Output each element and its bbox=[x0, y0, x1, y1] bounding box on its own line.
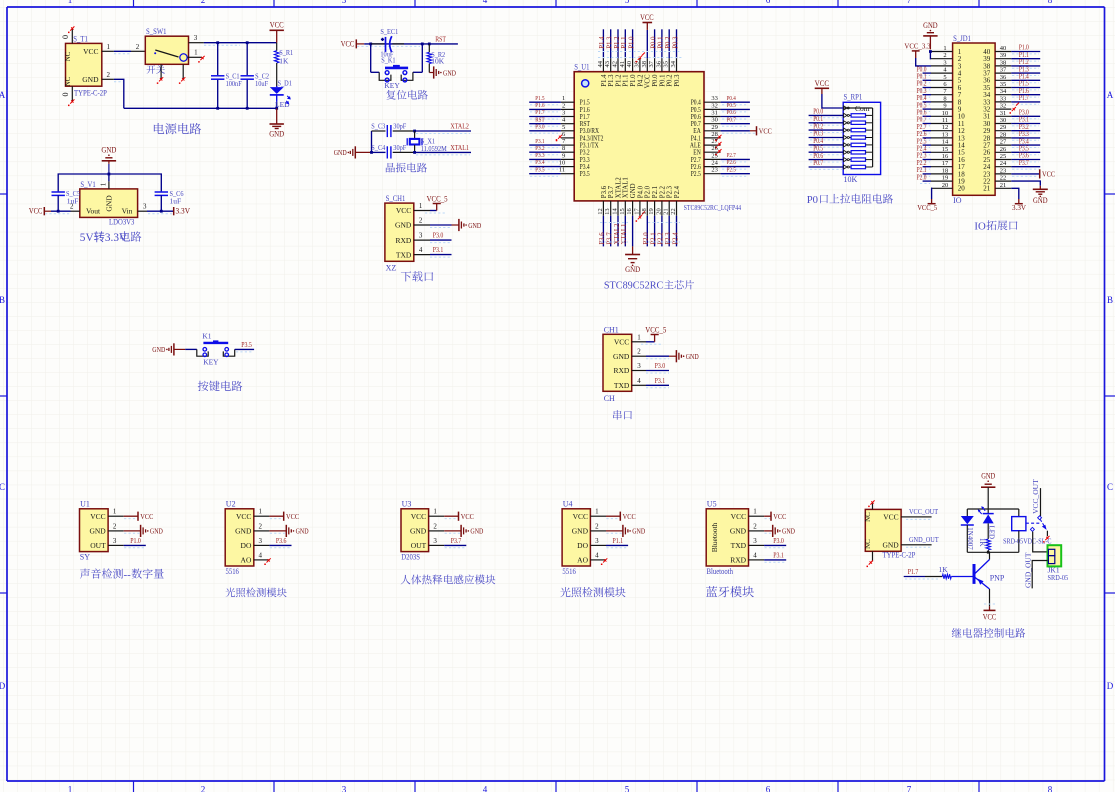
relay NC contact diamond bbox=[1030, 527, 1034, 531]
resistor R1 bbox=[276, 43, 278, 51]
wire T1.2 down to bottom rail bbox=[114, 79, 124, 108]
power port VCC at EA bbox=[756, 126, 758, 135]
SW1 bottom pin b bbox=[182, 64, 184, 78]
RP1 resistor row 4 bbox=[849, 129, 851, 131]
title U5 bbox=[706, 586, 754, 597]
wire U1 P1.0 bbox=[124, 544, 146, 546]
power port VCC_5 serial bbox=[654, 335, 656, 342]
ground GND chip bbox=[632, 246, 634, 254]
svg-text:P3.5: P3.5 bbox=[580, 170, 590, 178]
svg-text:VCC: VCC bbox=[883, 512, 898, 521]
wire P0.6 to RP1 bbox=[809, 159, 844, 161]
svg-text:2: 2 bbox=[201, 785, 206, 793]
U1 top pin 44 line bbox=[602, 58, 604, 71]
relay common line bbox=[1040, 488, 1042, 516]
JD1 right pin 23 line bbox=[995, 173, 1011, 175]
wire jd1 right P1.0 bbox=[1011, 51, 1040, 53]
wire U4 VCC bbox=[606, 515, 620, 517]
wire jd1 P2.5 bbox=[923, 144, 931, 146]
U1 top pin 36 line bbox=[661, 58, 663, 71]
svg-text:P3.7: P3.7 bbox=[451, 536, 462, 545]
svg-text:XZ: XZ bbox=[386, 264, 397, 273]
wire pin1 to VCC_5 bbox=[430, 210, 437, 212]
svg-text:VCC: VCC bbox=[573, 512, 588, 521]
svg-text:U3: U3 bbox=[402, 500, 412, 509]
JD1 left pin 3 line bbox=[931, 65, 953, 67]
wire jd1 right P3.4 bbox=[1011, 144, 1040, 146]
wire U5 P3.1 bbox=[764, 559, 786, 561]
svg-text:GND_OUT: GND_OUT bbox=[1023, 552, 1032, 588]
U1 bottom pin 15 line bbox=[624, 201, 626, 216]
RP1 com rail bbox=[843, 107, 872, 109]
svg-text:P1.5: P1.5 bbox=[535, 95, 544, 102]
svg-text:22: 22 bbox=[1000, 175, 1007, 182]
svg-text:S_T1: S_T1 bbox=[73, 35, 88, 44]
svg-text:39: 39 bbox=[1000, 52, 1007, 59]
ground GND power block bbox=[276, 108, 278, 124]
svg-text:XTAL2: XTAL2 bbox=[450, 121, 469, 130]
JD1 left pin 4 line bbox=[931, 72, 953, 74]
U1 right pin 28 line bbox=[704, 137, 721, 139]
svg-text:RST: RST bbox=[535, 116, 544, 123]
svg-text:B: B bbox=[0, 295, 5, 305]
svg-text:P1.1: P1.1 bbox=[613, 536, 624, 545]
wire U1 bottom pin net XTAL1 bbox=[624, 216, 626, 247]
wire jd1 P0.4 bbox=[923, 101, 931, 103]
svg-text:P1.0: P1.0 bbox=[130, 536, 141, 545]
svg-text:16: 16 bbox=[942, 153, 949, 160]
svg-text:DO: DO bbox=[577, 541, 588, 550]
svg-text:20: 20 bbox=[942, 182, 949, 189]
svg-text:P2.4: P2.4 bbox=[672, 232, 679, 245]
SW1 pin 3 line bbox=[189, 42, 204, 44]
svg-text:10: 10 bbox=[559, 160, 566, 167]
svg-text:TYPE-C-2P: TYPE-C-2P bbox=[883, 550, 916, 559]
svg-text:15: 15 bbox=[942, 146, 949, 153]
RP1 resistor row 7 bbox=[849, 151, 851, 153]
JD1 left pin 5 line bbox=[931, 79, 953, 81]
wire U4 GND bbox=[606, 530, 623, 532]
svg-text:10: 10 bbox=[942, 110, 949, 117]
svg-text:P3.1: P3.1 bbox=[773, 550, 784, 559]
svg-text:U1: U1 bbox=[80, 500, 90, 509]
junction bottom C1 bbox=[216, 107, 219, 110]
RP1 resistor row 8 bbox=[849, 159, 851, 161]
svg-text:LDO3V3: LDO3V3 bbox=[109, 218, 134, 227]
wire pin2 to GND bbox=[430, 224, 452, 226]
svg-text:GND: GND bbox=[923, 21, 938, 30]
wire jd1 pin23 VCC bbox=[1011, 173, 1039, 175]
svg-text:100nF: 100nF bbox=[226, 79, 242, 88]
wire jd1 P0.7 bbox=[923, 123, 931, 125]
svg-text:21: 21 bbox=[663, 208, 670, 215]
svg-text:P2.7: P2.7 bbox=[727, 152, 737, 159]
svg-text:25: 25 bbox=[1000, 153, 1007, 160]
svg-text:1: 1 bbox=[595, 508, 599, 516]
JD1 right pin 39 line bbox=[995, 58, 1011, 60]
LED relay arrows bbox=[982, 507, 986, 511]
diode 1N4007 bbox=[966, 509, 968, 516]
svg-text:VCC: VCC bbox=[773, 512, 786, 521]
JD1 left pin 15 line bbox=[931, 151, 953, 153]
U1 pin 1 VCC line bbox=[108, 515, 124, 517]
wire U1 top pin net P1.0 bbox=[632, 29, 634, 58]
wire VCC to V1.2 bbox=[51, 210, 71, 212]
junction relay collector bbox=[987, 551, 990, 554]
svg-text:20: 20 bbox=[655, 208, 662, 215]
wire vcc33 to pin3 bbox=[916, 58, 931, 66]
wire U1 GND bbox=[124, 530, 141, 532]
wire U1 bottom pin net XTAL2 bbox=[617, 216, 619, 247]
svg-text:P0: P0 bbox=[807, 194, 818, 206]
transistor Q1 PNP bbox=[973, 564, 976, 584]
wire V1.3 to 3.3V bbox=[147, 210, 174, 212]
wire jd1 right P3.1 bbox=[1011, 123, 1040, 125]
wire jd1 P2.1 bbox=[923, 173, 931, 175]
T1 top stub pin 0 bbox=[71, 28, 73, 44]
ground GND jd1 bottom bbox=[1039, 186, 1041, 190]
U1 right pin 27 line bbox=[704, 144, 721, 146]
svg-text:P3.0: P3.0 bbox=[773, 536, 784, 545]
RP1 resistor row 5 bbox=[849, 137, 851, 139]
svg-text:P1.0: P1.0 bbox=[628, 36, 635, 49]
svg-text:P2.5: P2.5 bbox=[691, 170, 701, 178]
wire XTAL2 bbox=[415, 130, 471, 132]
ground GND U2 bbox=[285, 525, 287, 537]
svg-text:P1.4: P1.4 bbox=[601, 74, 608, 87]
wire jd1 pin20 to VCC_5 bbox=[930, 188, 933, 199]
svg-text:33: 33 bbox=[1000, 95, 1007, 102]
wire serial pin3 P3.0 bbox=[646, 370, 669, 372]
svg-text:CH: CH bbox=[604, 394, 615, 403]
svg-text:38: 38 bbox=[641, 61, 648, 68]
no-connect X jd1 pin32 bbox=[1012, 107, 1016, 111]
module U1 body bbox=[80, 509, 109, 552]
RP1 pin arrow row 3 bbox=[844, 121, 847, 125]
wire P0.0 to RP1 bbox=[809, 114, 844, 116]
wire U1 bottom pin net P2.1 bbox=[654, 216, 656, 247]
wire jd1 right P1.6 bbox=[1011, 94, 1040, 96]
wire U1 top pin net P0.3 bbox=[676, 29, 678, 58]
svg-text:P1.3: P1.3 bbox=[607, 36, 614, 49]
svg-text:21: 21 bbox=[983, 185, 991, 193]
svg-text:P3.6: P3.6 bbox=[276, 536, 287, 545]
svg-text:GND: GND bbox=[89, 527, 106, 536]
svg-text:28: 28 bbox=[1000, 131, 1007, 138]
svg-text:GND: GND bbox=[150, 527, 163, 536]
svg-text:P0.5: P0.5 bbox=[727, 102, 736, 109]
RP1 pin arrow row 1 bbox=[844, 106, 847, 110]
svg-text:27: 27 bbox=[1000, 139, 1007, 146]
svg-text:CH1: CH1 bbox=[604, 325, 619, 334]
svg-text:KEY: KEY bbox=[203, 358, 219, 367]
no-connect X typec top bbox=[870, 500, 874, 504]
wire pin3 P3.0 bbox=[430, 239, 452, 241]
svg-text:VCC: VCC bbox=[614, 338, 629, 347]
svg-text:P2.6: P2.6 bbox=[727, 159, 737, 166]
JD1 left pin 12 line bbox=[931, 130, 953, 132]
U1 top pin 37 line bbox=[654, 58, 656, 71]
SW1 pin 2 line bbox=[131, 50, 145, 52]
svg-text:P3.6: P3.6 bbox=[599, 232, 606, 245]
svg-text:P0.2: P0.2 bbox=[667, 74, 674, 87]
wire U1 GND pin down bbox=[632, 216, 634, 247]
svg-text:2: 2 bbox=[419, 217, 423, 225]
svg-text:5516: 5516 bbox=[562, 567, 575, 576]
svg-text:GND: GND bbox=[882, 540, 899, 549]
T1 bottom stub pin 0 bbox=[71, 86, 73, 101]
svg-text:VCC: VCC bbox=[461, 512, 474, 521]
svg-text:VCC_5: VCC_5 bbox=[427, 195, 448, 204]
wire VCC down to Com bbox=[822, 94, 843, 108]
svg-text:P3.0: P3.0 bbox=[655, 361, 666, 370]
svg-text:22: 22 bbox=[670, 208, 677, 215]
svg-text:VCC_5: VCC_5 bbox=[917, 203, 937, 212]
svg-text:6: 6 bbox=[766, 0, 771, 5]
U5 pin 4 RXD line bbox=[749, 559, 765, 561]
wire U1 bottom pin net P3.7 bbox=[610, 216, 612, 247]
svg-text:KEY: KEY bbox=[384, 81, 400, 90]
svg-text:P0.7: P0.7 bbox=[813, 159, 823, 167]
wire U1 pin 25 net P2.7 bbox=[721, 158, 750, 160]
svg-text:23: 23 bbox=[1000, 167, 1007, 174]
svg-text:GND: GND bbox=[101, 145, 116, 154]
wire VCC_OUT bbox=[917, 516, 932, 518]
svg-text:1: 1 bbox=[194, 49, 198, 57]
power port VCC_5 jd1 bbox=[931, 199, 933, 204]
U1 bottom pin 16 line bbox=[632, 201, 634, 216]
no-connect X on SW1 pin1 bbox=[200, 56, 204, 60]
svg-text:3.3V: 3.3V bbox=[176, 207, 191, 216]
svg-text:GND: GND bbox=[334, 148, 347, 157]
svg-text:26: 26 bbox=[711, 145, 718, 152]
svg-text:P3.5: P3.5 bbox=[535, 166, 544, 173]
svg-text:XTAL1: XTAL1 bbox=[623, 177, 630, 198]
svg-text:S_RP1: S_RP1 bbox=[844, 93, 863, 102]
U2 pin 4 AO line bbox=[254, 559, 270, 561]
svg-text:VCC: VCC bbox=[286, 512, 299, 521]
U1 top pin 34 line bbox=[676, 58, 678, 71]
svg-text:27: 27 bbox=[711, 138, 718, 145]
svg-text:VCC_OUT: VCC_OUT bbox=[909, 507, 938, 516]
CH1 serial pin1 line bbox=[632, 341, 646, 343]
svg-text:VCC: VCC bbox=[815, 79, 830, 88]
RP1 resistor row 9 bbox=[849, 166, 851, 168]
T1 pin 2 line bbox=[102, 78, 114, 80]
svg-text:Bluetooth: Bluetooth bbox=[710, 522, 719, 552]
CH1 serial pin4 line bbox=[632, 384, 646, 386]
wire jd1 right P3.0 bbox=[1011, 115, 1040, 117]
svg-text:24: 24 bbox=[711, 160, 718, 167]
svg-text:XTAL2: XTAL2 bbox=[615, 177, 622, 199]
svg-text:1: 1 bbox=[259, 508, 263, 516]
svg-text:P2.0: P2.0 bbox=[917, 173, 927, 181]
wire U1 pin 24 net P2.6 bbox=[721, 166, 750, 168]
svg-text:S_JD1: S_JD1 bbox=[953, 34, 971, 43]
svg-text:P0.3: P0.3 bbox=[674, 74, 681, 87]
svg-text:S_C3: S_C3 bbox=[371, 122, 385, 131]
U1 right pin 33 line bbox=[704, 101, 721, 103]
svg-text:TXD: TXD bbox=[731, 541, 747, 550]
sheet border frame bbox=[7, 6, 1105, 8]
svg-text:2: 2 bbox=[201, 0, 206, 5]
wire U2 VCC bbox=[269, 515, 283, 517]
U3 pin 3 OUT line bbox=[429, 544, 445, 546]
JD1 right pin 36 line bbox=[995, 79, 1011, 81]
wire U1 bottom pin net P2.2 bbox=[661, 216, 663, 247]
svg-text:GND: GND bbox=[296, 527, 309, 536]
capacitor EC1 bbox=[385, 37, 387, 52]
svg-text:GND: GND bbox=[468, 221, 481, 230]
no-connect X U2 pin 4 bbox=[267, 558, 271, 562]
ground GND U4 bbox=[622, 525, 624, 537]
svg-text:P0.1: P0.1 bbox=[659, 75, 666, 87]
JD1 left pin 10 line bbox=[931, 115, 953, 117]
svg-text:P1.4: P1.4 bbox=[599, 36, 606, 49]
wire U5 GND bbox=[764, 530, 773, 532]
wire serial pin1 VCC_5 bbox=[646, 341, 655, 343]
svg-text:17: 17 bbox=[633, 208, 640, 215]
U4 pin 3 DO line bbox=[590, 544, 606, 546]
svg-text:35: 35 bbox=[1000, 81, 1007, 88]
title reset block bbox=[386, 90, 428, 100]
U1 left pin 9 line bbox=[561, 158, 574, 160]
svg-text:P3.1: P3.1 bbox=[433, 245, 444, 254]
U1 right pin 24 line bbox=[704, 166, 721, 168]
JD1 right pin 29 line bbox=[995, 130, 1011, 132]
svg-text:2: 2 bbox=[753, 522, 757, 530]
connector T1 body bbox=[66, 43, 102, 86]
JD1 left pin 6 line bbox=[931, 87, 953, 89]
wire P0.1 to RP1 bbox=[809, 122, 844, 124]
U1 bottom pin 20 line bbox=[661, 201, 663, 216]
svg-text:P3.1: P3.1 bbox=[655, 376, 666, 385]
title mcu bbox=[604, 280, 694, 292]
title power block bbox=[154, 123, 201, 134]
U1 left pin 4 line bbox=[561, 123, 574, 125]
svg-text:SY: SY bbox=[80, 553, 90, 562]
wire U1 bottom pin net P2.4 bbox=[676, 216, 678, 247]
svg-text:AO: AO bbox=[577, 556, 588, 565]
U1 left pin 3 line bbox=[561, 116, 574, 118]
svg-text:P3.2: P3.2 bbox=[535, 145, 544, 152]
U1 pin 2 GND line bbox=[108, 530, 124, 532]
svg-text:GND: GND bbox=[470, 527, 483, 536]
ground GND reset bbox=[429, 72, 433, 74]
svg-text:8: 8 bbox=[562, 145, 565, 152]
svg-text:P1.7: P1.7 bbox=[1019, 94, 1029, 102]
wire U3 GND bbox=[444, 530, 461, 532]
SW1 bottom pin a bbox=[160, 64, 162, 78]
wire jd1 P2.2 bbox=[923, 166, 931, 168]
svg-text:P2.3: P2.3 bbox=[665, 232, 672, 245]
svg-text:VCC_OUT: VCC_OUT bbox=[1031, 479, 1040, 514]
wire jd1 P0.5 bbox=[923, 108, 931, 110]
svg-text:4: 4 bbox=[483, 0, 488, 5]
svg-text:P1.7: P1.7 bbox=[535, 109, 545, 116]
V1 pin3 line bbox=[138, 210, 147, 212]
wire jd1 pins 1-2 gnd bbox=[929, 52, 932, 59]
title U3 bbox=[401, 575, 496, 585]
svg-text:30: 30 bbox=[711, 117, 718, 124]
wire jd1 P0.0 bbox=[923, 72, 931, 74]
JD1 right pin 30 line bbox=[995, 123, 1011, 125]
no-connect X typec bottom bbox=[869, 560, 873, 564]
svg-text:1: 1 bbox=[433, 508, 437, 516]
svg-text:P3.6: P3.6 bbox=[601, 185, 608, 198]
key button K1 standalone bbox=[197, 349, 208, 356]
svg-text:14: 14 bbox=[942, 139, 949, 146]
relay switch dashed link bbox=[1026, 522, 1040, 524]
title ldo block bbox=[80, 230, 142, 244]
svg-text:4: 4 bbox=[259, 551, 263, 559]
power port 3.3V jd1 bbox=[1018, 199, 1020, 204]
svg-text:VCC: VCC bbox=[341, 39, 355, 48]
switch SW1 body bbox=[145, 36, 188, 64]
U1 top pin 43 line bbox=[610, 58, 612, 71]
title serial port bbox=[613, 410, 632, 420]
wire P0.3 to RP1 bbox=[809, 137, 844, 139]
relay NO stub bbox=[1046, 531, 1048, 537]
svg-text:44: 44 bbox=[597, 60, 604, 67]
wire U1 top pin net P1.3 bbox=[610, 29, 612, 58]
svg-text:GND: GND bbox=[686, 352, 699, 361]
ground GND U3 bbox=[460, 525, 462, 537]
wire jd1 P0.2 bbox=[923, 87, 931, 89]
svg-text:P3.5: P3.5 bbox=[241, 340, 252, 349]
JD1 right pin 38 line bbox=[995, 65, 1011, 67]
svg-text:1K: 1K bbox=[279, 57, 289, 66]
svg-text:1: 1 bbox=[419, 202, 423, 210]
connector JK1 body bbox=[1048, 545, 1062, 566]
wire XTAL1 bbox=[415, 151, 471, 153]
svg-text:VCC: VCC bbox=[396, 206, 411, 215]
svg-text:32: 32 bbox=[1000, 103, 1007, 110]
svg-text:30: 30 bbox=[1000, 117, 1007, 124]
svg-text:25: 25 bbox=[711, 152, 718, 159]
svg-text:OUT: OUT bbox=[90, 541, 106, 550]
U1 right pin 30 line bbox=[704, 123, 721, 125]
U1 left pin 7 line bbox=[561, 144, 574, 146]
JD1 left pin 18 line bbox=[931, 173, 953, 175]
title U2 bbox=[226, 588, 287, 598]
U1 top pin 39 line bbox=[639, 58, 641, 71]
JD1 right pin 34 line bbox=[995, 94, 1011, 96]
svg-text:8: 8 bbox=[1048, 785, 1053, 793]
svg-text:D203S: D203S bbox=[401, 553, 420, 562]
wire serial pin4 P3.1 bbox=[646, 384, 669, 386]
U4 pin 4 AO line bbox=[590, 559, 606, 561]
svg-text:16: 16 bbox=[626, 208, 633, 215]
title U1 bbox=[80, 569, 164, 581]
svg-text:P3.4: P3.4 bbox=[535, 159, 545, 166]
module U2 body bbox=[225, 509, 254, 566]
svg-text:13: 13 bbox=[604, 208, 611, 215]
no-connect X SW1 pin b bbox=[181, 77, 185, 81]
svg-text:3: 3 bbox=[342, 0, 347, 5]
svg-text:41: 41 bbox=[619, 61, 626, 68]
wire U1 pin 9 net P3.3 bbox=[529, 158, 561, 160]
junction bottom C2 bbox=[246, 107, 249, 110]
power port VCC U1 bbox=[137, 512, 139, 521]
CH1 xiazai pin2 line bbox=[414, 224, 430, 226]
JD1 left pin 17 line bbox=[931, 166, 953, 168]
U1 bottom pin 18 line bbox=[646, 201, 648, 216]
JD1 right pin 28 line bbox=[995, 137, 1011, 139]
JD1 left pin 20 line bbox=[931, 187, 953, 189]
svg-text:VCC: VCC bbox=[236, 512, 251, 521]
svg-text:17: 17 bbox=[942, 160, 949, 167]
